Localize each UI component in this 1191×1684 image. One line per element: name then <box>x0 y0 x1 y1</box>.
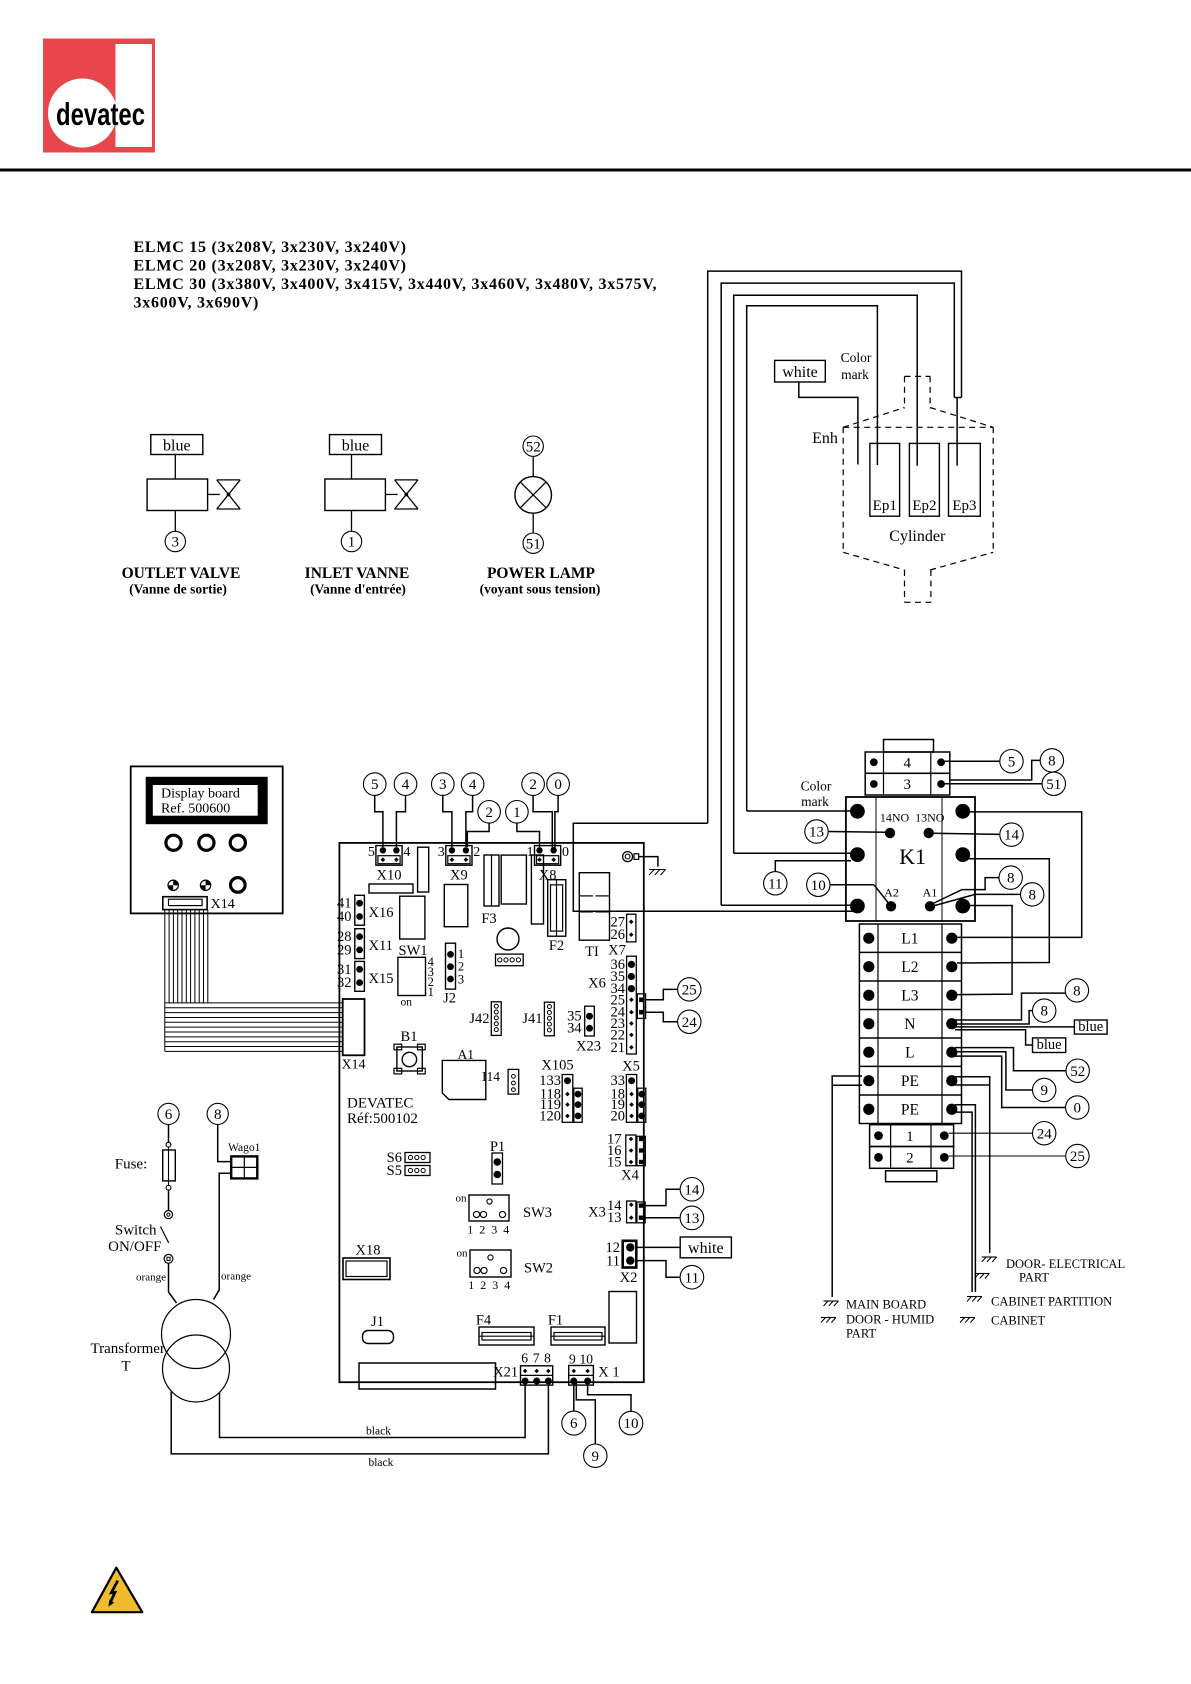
svg-text:8: 8 <box>1007 871 1015 887</box>
svg-text:(voyant sous tension): (voyant sous tension) <box>480 582 601 597</box>
svg-text:0: 0 <box>1074 1101 1082 1117</box>
svg-text:11: 11 <box>685 1270 699 1286</box>
svg-text:X23: X23 <box>576 1038 601 1054</box>
svg-text:ELMC 15 (3x208V, 3x230V, 3x240: ELMC 15 (3x208V, 3x230V, 3x240V) <box>134 239 407 256</box>
svg-text:0: 0 <box>562 845 569 860</box>
svg-text:X11: X11 <box>369 938 393 954</box>
svg-text:J42: J42 <box>469 1011 489 1027</box>
svg-text:devatec: devatec <box>56 96 145 132</box>
svg-text:Color: Color <box>841 350 872 365</box>
svg-text:3: 3 <box>903 777 911 793</box>
svg-text:Ep3: Ep3 <box>952 498 976 514</box>
svg-text:3: 3 <box>438 845 445 860</box>
svg-text:blue: blue <box>163 438 191 455</box>
svg-text:Display board: Display board <box>161 787 240 802</box>
svg-text:8: 8 <box>544 1351 551 1366</box>
svg-text:13: 13 <box>684 1211 699 1227</box>
svg-text:2: 2 <box>906 1151 914 1167</box>
svg-text:3: 3 <box>439 777 447 793</box>
svg-text:10: 10 <box>579 1351 593 1366</box>
svg-text:8: 8 <box>1073 984 1081 1000</box>
svg-text:L3: L3 <box>901 987 918 1004</box>
svg-text:white: white <box>782 364 818 381</box>
svg-text:2: 2 <box>529 777 537 793</box>
svg-text:SW3: SW3 <box>523 1205 552 1221</box>
svg-text:PART: PART <box>846 1327 876 1341</box>
svg-text:1: 1 <box>527 845 534 860</box>
svg-text:1: 1 <box>906 1129 914 1145</box>
svg-text:13: 13 <box>809 825 824 841</box>
svg-text:ON/OFF: ON/OFF <box>108 1239 161 1255</box>
svg-text:A1: A1 <box>923 885 938 899</box>
svg-text:on: on <box>456 1193 468 1205</box>
svg-text:6: 6 <box>165 1107 173 1123</box>
svg-text:21: 21 <box>611 1040 626 1056</box>
svg-text:ELMC 20 (3x208V, 3x230V, 3x240: ELMC 20 (3x208V, 3x230V, 3x240V) <box>134 258 407 275</box>
svg-text:DEVATEC: DEVATEC <box>347 1096 413 1112</box>
svg-text:3: 3 <box>172 535 180 551</box>
svg-text:white: white <box>688 1240 724 1257</box>
svg-text:Ep2: Ep2 <box>912 498 936 514</box>
svg-text:F3: F3 <box>481 911 496 927</box>
svg-text:T: T <box>121 1358 130 1374</box>
svg-text:orange: orange <box>221 1271 251 1283</box>
svg-text:(Vanne de sortie): (Vanne de sortie) <box>129 582 227 597</box>
svg-text:black: black <box>366 1426 391 1438</box>
svg-text:2: 2 <box>458 960 464 974</box>
svg-text:X105: X105 <box>541 1057 573 1073</box>
svg-text:SW2: SW2 <box>524 1261 553 1277</box>
svg-text:X2: X2 <box>620 1270 638 1286</box>
svg-text:11: 11 <box>606 1253 620 1269</box>
svg-text:(Vanne d'entrée): (Vanne d'entrée) <box>310 582 406 597</box>
svg-text:1: 1 <box>428 985 434 999</box>
svg-text:2: 2 <box>473 845 480 860</box>
svg-text:10: 10 <box>624 1416 639 1432</box>
svg-text:5: 5 <box>1008 754 1016 770</box>
svg-text:52: 52 <box>526 439 541 455</box>
svg-text:CABINET: CABINET <box>991 1314 1046 1328</box>
svg-text:9: 9 <box>1040 1083 1048 1099</box>
svg-text:10: 10 <box>811 878 826 894</box>
svg-text:J1: J1 <box>371 1314 384 1330</box>
svg-text:3: 3 <box>458 973 464 987</box>
svg-text:X4: X4 <box>621 1168 639 1184</box>
svg-text:X16: X16 <box>369 905 394 921</box>
svg-text:1 2 3 4: 1 2 3 4 <box>467 1223 511 1237</box>
svg-text:Wago1: Wago1 <box>228 1142 261 1154</box>
svg-text:F4: F4 <box>476 1313 492 1329</box>
svg-text:X15: X15 <box>369 971 394 987</box>
svg-text:26: 26 <box>611 927 626 943</box>
svg-text:F1: F1 <box>548 1313 563 1329</box>
svg-text:X18: X18 <box>356 1243 381 1259</box>
svg-text:13NO: 13NO <box>915 810 945 824</box>
svg-text:4: 4 <box>402 777 410 793</box>
svg-text:34: 34 <box>567 1021 582 1037</box>
svg-text:8: 8 <box>214 1107 222 1123</box>
svg-text:4: 4 <box>403 845 410 860</box>
svg-text:PE: PE <box>901 1101 919 1118</box>
svg-text:14: 14 <box>1004 828 1020 844</box>
svg-text:6: 6 <box>570 1416 578 1432</box>
svg-text:Réf:500102: Réf:500102 <box>347 1111 418 1127</box>
svg-text:8: 8 <box>1028 888 1036 904</box>
svg-text:I14: I14 <box>482 1069 500 1084</box>
svg-text:Switch: Switch <box>115 1223 157 1239</box>
svg-text:25: 25 <box>682 983 697 999</box>
svg-text:ELMC 30 (3x380V, 3x400V, 3x415: ELMC 30 (3x380V, 3x400V, 3x415V, 3x440V,… <box>134 276 658 293</box>
svg-text:X7: X7 <box>608 942 626 958</box>
svg-text:120: 120 <box>539 1108 561 1124</box>
svg-text:8: 8 <box>1048 754 1056 770</box>
svg-text:X21: X21 <box>493 1365 518 1381</box>
svg-text:24: 24 <box>1037 1126 1053 1142</box>
svg-text:8: 8 <box>1040 1004 1048 1020</box>
svg-text:TI: TI <box>585 944 599 960</box>
svg-text:24: 24 <box>682 1015 698 1031</box>
svg-text:14NO: 14NO <box>880 810 910 824</box>
svg-text:Fuse:: Fuse: <box>115 1156 148 1172</box>
svg-text:X 1: X 1 <box>598 1365 619 1381</box>
svg-text:1: 1 <box>513 805 521 821</box>
svg-text:S5: S5 <box>387 1163 402 1179</box>
svg-text:15: 15 <box>607 1155 622 1171</box>
svg-text:9: 9 <box>592 1449 600 1465</box>
svg-text:4: 4 <box>903 756 911 772</box>
svg-text:PE: PE <box>901 1073 919 1090</box>
svg-text:29: 29 <box>337 943 352 959</box>
svg-text:4: 4 <box>469 777 477 793</box>
svg-text:51: 51 <box>1046 777 1061 793</box>
svg-text:20: 20 <box>611 1108 626 1124</box>
svg-text:PART: PART <box>1019 1271 1049 1285</box>
svg-text:X14: X14 <box>341 1058 365 1073</box>
svg-text:Enh: Enh <box>812 430 838 447</box>
svg-text:DOOR- ELECTRICAL: DOOR- ELECTRICAL <box>1006 1257 1125 1271</box>
svg-text:blue: blue <box>342 438 370 455</box>
svg-text:1: 1 <box>348 535 356 551</box>
svg-text:on: on <box>401 997 413 1009</box>
svg-text:CABINET PARTITION: CABINET PARTITION <box>991 1295 1112 1309</box>
svg-text:5: 5 <box>371 777 379 793</box>
svg-text:X3: X3 <box>588 1205 606 1221</box>
svg-text:F2: F2 <box>549 938 564 954</box>
svg-text:mark: mark <box>841 367 869 382</box>
svg-text:14: 14 <box>684 1182 700 1198</box>
svg-text:1: 1 <box>458 947 464 961</box>
svg-text:25: 25 <box>1070 1149 1085 1165</box>
svg-text:Color: Color <box>801 778 832 793</box>
svg-text:on: on <box>457 1248 469 1260</box>
svg-text:blue: blue <box>1078 1019 1103 1035</box>
svg-text:black: black <box>368 1457 393 1469</box>
svg-text:5: 5 <box>368 845 375 860</box>
svg-text:X10: X10 <box>377 868 402 884</box>
svg-text:X6: X6 <box>588 975 606 991</box>
svg-text:Ref. 500600: Ref. 500600 <box>161 802 230 817</box>
svg-text:L1: L1 <box>901 930 918 947</box>
svg-text:52: 52 <box>1070 1064 1085 1080</box>
svg-text:X9: X9 <box>450 868 468 884</box>
svg-text:3x600V, 3x690V): 3x600V, 3x690V) <box>134 295 260 312</box>
svg-text:2: 2 <box>485 805 493 821</box>
svg-text:40: 40 <box>337 909 352 925</box>
svg-text:X14: X14 <box>211 897 235 912</box>
svg-text:32: 32 <box>337 975 352 991</box>
svg-text:K1: K1 <box>899 844 926 869</box>
svg-text:MAIN BOARD: MAIN BOARD <box>846 1298 926 1312</box>
svg-text:1 2 3 4: 1 2 3 4 <box>468 1278 512 1292</box>
svg-text:Cylinder: Cylinder <box>889 528 946 545</box>
svg-text:7: 7 <box>533 1351 540 1366</box>
svg-text:orange: orange <box>136 1272 166 1284</box>
svg-text:9: 9 <box>569 1351 576 1366</box>
svg-text:13: 13 <box>607 1210 622 1226</box>
svg-text:J2: J2 <box>443 990 456 1006</box>
svg-text:J41: J41 <box>522 1011 542 1027</box>
svg-text:6: 6 <box>521 1351 528 1366</box>
svg-text:POWER LAMP: POWER LAMP <box>487 565 596 582</box>
svg-text:DOOR - HUMID: DOOR - HUMID <box>846 1313 934 1327</box>
svg-text:N: N <box>904 1016 915 1033</box>
svg-text:L: L <box>905 1044 914 1061</box>
svg-text:11: 11 <box>768 876 782 892</box>
svg-text:Ep1: Ep1 <box>873 498 897 514</box>
svg-text:Transformer: Transformer <box>90 1341 164 1357</box>
svg-text:mark: mark <box>801 794 829 809</box>
svg-text:51: 51 <box>526 536 541 552</box>
svg-text:INLET VANNE: INLET VANNE <box>305 565 410 582</box>
svg-text:B1: B1 <box>401 1029 418 1045</box>
svg-text:A2: A2 <box>884 885 899 899</box>
svg-text:OUTLET VALVE: OUTLET VALVE <box>122 565 241 582</box>
svg-text:L2: L2 <box>901 959 918 976</box>
svg-text:blue: blue <box>1037 1037 1062 1053</box>
svg-text:0: 0 <box>554 777 562 793</box>
